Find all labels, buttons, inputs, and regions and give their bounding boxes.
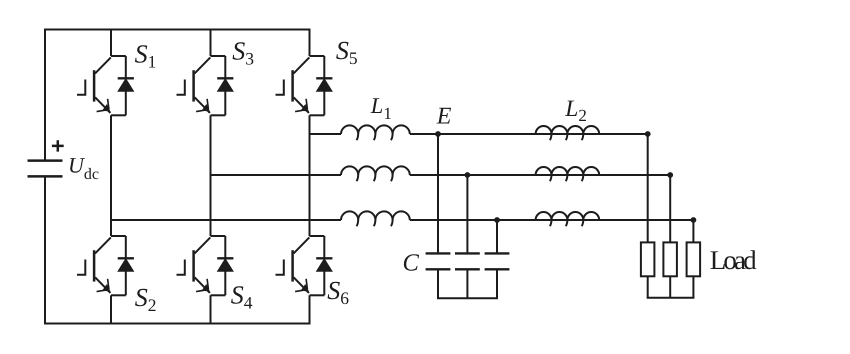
svg-text:S4: S4 [231, 280, 253, 312]
svg-text:S1: S1 [135, 40, 157, 72]
svg-text:C: C [403, 250, 420, 277]
svg-text:L1: L1 [370, 93, 392, 123]
svg-text:L2: L2 [564, 96, 587, 125]
svg-text:S5: S5 [336, 36, 358, 68]
svg-text:S6: S6 [327, 276, 349, 308]
svg-text:Load: Load [710, 245, 757, 275]
svg-text:Udc: Udc [68, 152, 99, 183]
svg-text:S2: S2 [135, 283, 157, 315]
svg-text:S3: S3 [232, 37, 254, 69]
svg-text:E: E [436, 103, 452, 129]
